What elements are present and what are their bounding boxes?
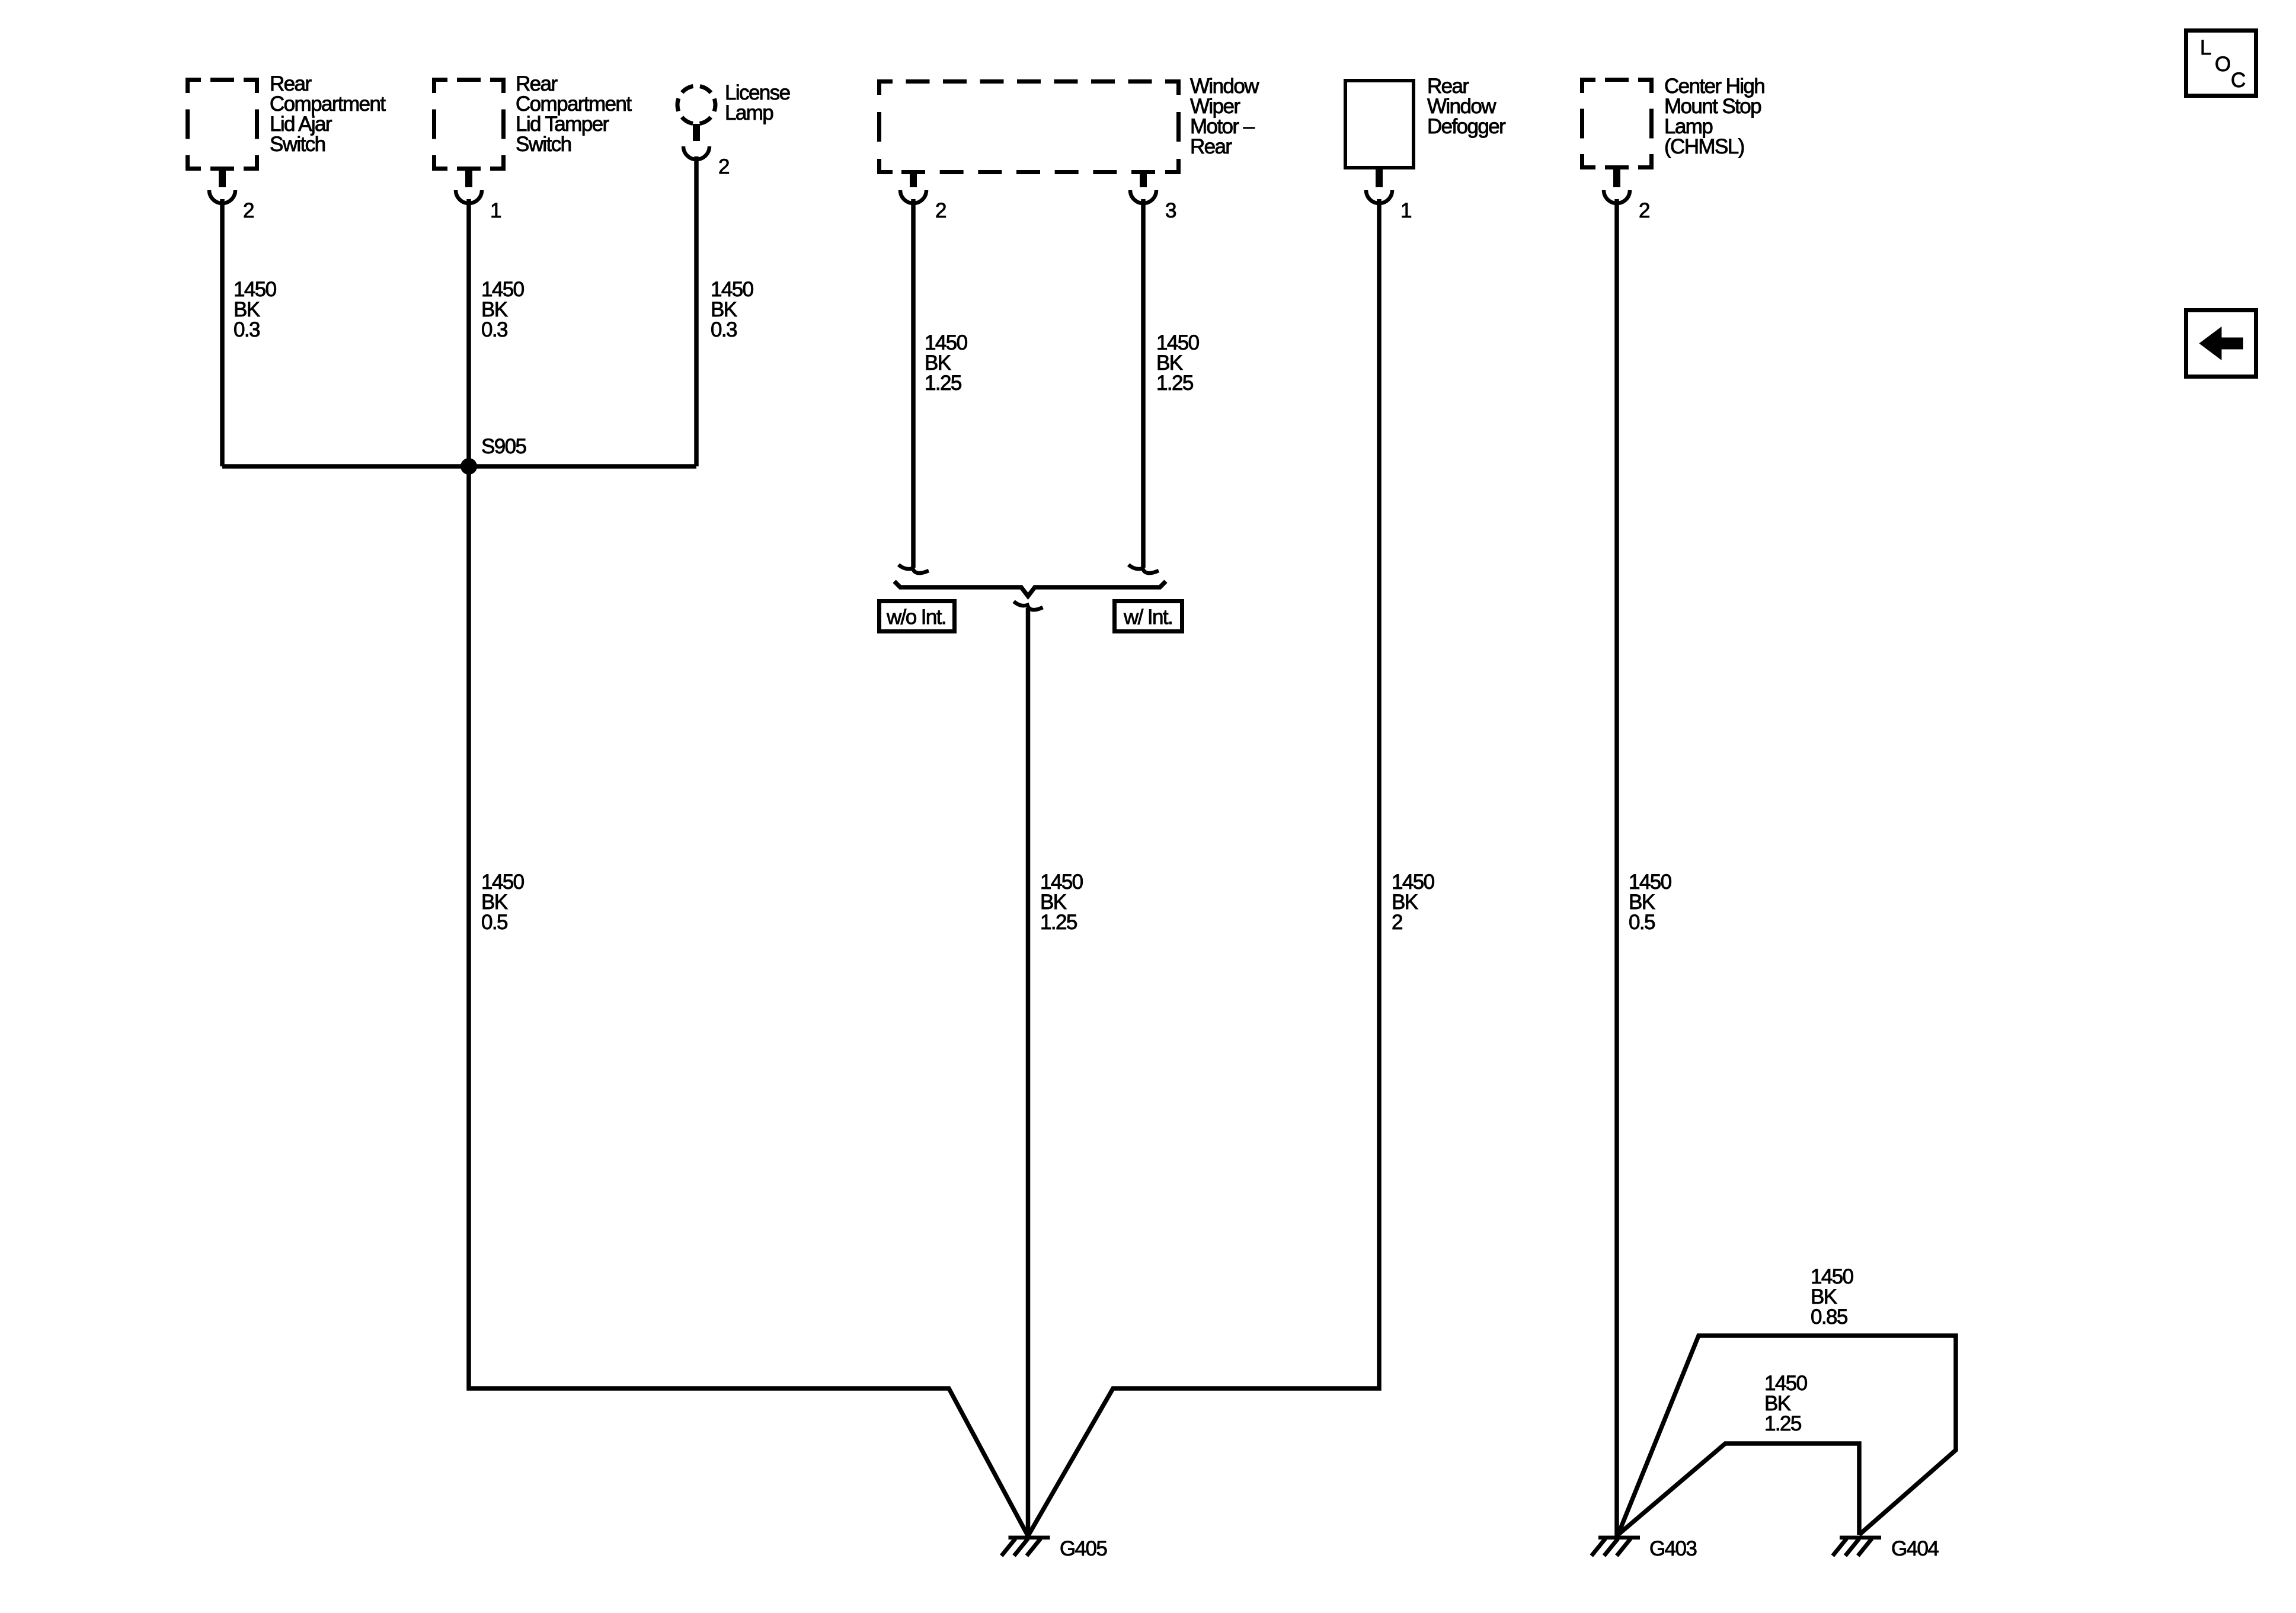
svg-text:w/ Int.: w/ Int.: [1123, 606, 1172, 629]
svg-text:Defogger: Defogger: [1427, 115, 1506, 138]
svg-text:2: 2: [1392, 911, 1402, 934]
svg-text:1: 1: [1400, 199, 1411, 222]
svg-text:2: 2: [1639, 199, 1649, 222]
svg-text:G405: G405: [1060, 1537, 1107, 1560]
svg-text:L: L: [2200, 36, 2211, 59]
svg-text:O: O: [2215, 53, 2230, 76]
svg-text:3: 3: [1165, 199, 1176, 222]
svg-text:1.25: 1.25: [925, 372, 961, 395]
svg-text:2: 2: [935, 199, 946, 222]
svg-text:0.5: 0.5: [1629, 911, 1655, 934]
svg-text:G403: G403: [1649, 1537, 1696, 1560]
svg-text:0.3: 0.3: [711, 318, 737, 341]
svg-text:C: C: [2231, 69, 2245, 92]
svg-text:0.5: 0.5: [481, 911, 507, 934]
svg-text:2: 2: [243, 199, 254, 222]
svg-text:1: 1: [490, 199, 501, 222]
svg-text:0.85: 0.85: [1811, 1305, 1847, 1329]
svg-text:G404: G404: [1891, 1537, 1939, 1560]
svg-text:w/o Int.: w/o Int.: [886, 606, 946, 629]
svg-text:Switch: Switch: [270, 133, 325, 156]
svg-text:0.3: 0.3: [481, 318, 507, 341]
svg-text:1.25: 1.25: [1764, 1412, 1801, 1435]
svg-text:Rear: Rear: [1190, 135, 1232, 158]
svg-text:1.25: 1.25: [1040, 911, 1077, 934]
svg-text:(CHMSL): (CHMSL): [1664, 135, 1744, 158]
svg-text:1.25: 1.25: [1156, 372, 1193, 395]
svg-text:S905: S905: [481, 435, 526, 458]
svg-text:Switch: Switch: [516, 133, 571, 156]
svg-text:0.3: 0.3: [234, 318, 260, 341]
svg-text:2: 2: [718, 155, 729, 178]
svg-text:Lamp: Lamp: [725, 101, 773, 124]
